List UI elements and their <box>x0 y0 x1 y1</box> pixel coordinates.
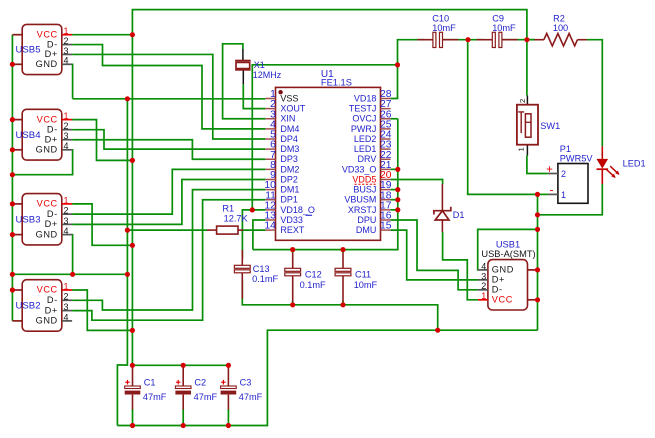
wire USB4 GND loop to shield rail <box>12 150 72 175</box>
junction right rail / USB1 GND <box>535 227 540 232</box>
capacitor C9 10mF <box>477 13 518 47</box>
wire VD18 to C10 <box>398 40 425 65</box>
wire +5V rail to C1 top / cap bank top rail <box>132 364 228 366</box>
pin 6 DM3 <box>265 140 299 154</box>
svg-text:GND: GND <box>36 316 58 326</box>
svg-text:2: 2 <box>64 36 69 46</box>
svg-text:BUSJ: BUSJ <box>353 185 376 195</box>
junction VD33 rail / C12 <box>290 247 295 252</box>
svg-text:USB-A(SMT): USB-A(SMT) <box>481 249 535 259</box>
svg-text:DP4: DP4 <box>280 134 298 144</box>
wire SW1 to P1 plus <box>527 156 548 174</box>
wire C3 bottom <box>227 409 229 426</box>
svg-text:USB2: USB2 <box>15 301 40 312</box>
svg-text:2: 2 <box>518 99 527 103</box>
junction USB3 shield upper <box>10 201 15 206</box>
junction VD33 rail / C11 <box>340 247 345 252</box>
svg-text:P1: P1 <box>560 144 571 154</box>
wire C2 bottom <box>182 409 184 426</box>
wire XIN loop (pin3 to crystal top) <box>223 44 266 119</box>
svg-text:DM1: DM1 <box>280 185 299 195</box>
pin 5 DP4 <box>265 130 298 144</box>
svg-text:4: 4 <box>64 226 69 236</box>
svg-text:10mF: 10mF <box>354 280 378 290</box>
svg-text:D+: D+ <box>492 275 505 285</box>
wire D1 anode to USB1 VCC <box>443 232 478 300</box>
wire USB2 D+ to chip DP1 (pin11) <box>72 200 265 320</box>
svg-text:D1: D1 <box>453 210 465 220</box>
crystal X1 12MHz <box>235 49 282 84</box>
wire left shield rail (USB5..USB2 shells) <box>11 35 13 321</box>
pin 4 DM4 <box>265 119 299 133</box>
svg-text:D+: D+ <box>45 134 58 144</box>
svg-text:2: 2 <box>64 121 69 131</box>
wire right GND rail <box>537 194 539 330</box>
pin 17 XRSTJ <box>348 200 392 214</box>
wire VD18 pin28 link <box>391 65 398 99</box>
pin 24 LED2 <box>354 130 392 144</box>
junction strap pin18 <box>395 197 400 202</box>
junction C10/C9 <box>465 37 470 42</box>
wire USB2 D- to chip DM1 (pin10) <box>72 190 265 310</box>
pin 15 DMU <box>356 221 392 235</box>
svg-text:12.7K: 12.7K <box>224 214 249 224</box>
wire DPU pin16 to USB1 D- <box>391 220 478 290</box>
wire USB3 GND loop <box>71 235 74 275</box>
wire C12 bottom <box>292 301 294 305</box>
USB4 shield pin stub top-left <box>12 119 22 121</box>
svg-text:C11: C11 <box>355 270 371 280</box>
wire DMU pin15 to USB1 D+ <box>391 230 478 280</box>
svg-text:DM3: DM3 <box>280 144 299 154</box>
resistor R2 100 <box>527 13 587 46</box>
wire USB4 D- to chip DM3 (pin6) <box>72 130 265 149</box>
svg-text:D-: D- <box>47 209 58 219</box>
switch SW1 <box>517 96 561 156</box>
svg-text:12MHz: 12MHz <box>253 70 282 80</box>
wire VD33_O pin21 stub link <box>391 168 398 170</box>
wire USB1 GND to right rail <box>478 229 538 270</box>
svg-text:USB4: USB4 <box>15 130 41 141</box>
junction VCC rail / USB3 <box>130 243 135 248</box>
wire P1 pin1 stub link <box>538 193 548 195</box>
wire BUSJ pin19 stub link <box>391 189 398 191</box>
wire switch node down to SW1 <box>526 40 528 96</box>
svg-text:1: 1 <box>64 195 69 205</box>
svg-text:SW1: SW1 <box>540 121 560 131</box>
svg-text:XIN: XIN <box>280 114 295 124</box>
svg-text:D-: D- <box>47 39 58 49</box>
svg-text:C13: C13 <box>253 264 270 274</box>
svg-text:C3: C3 <box>240 378 252 388</box>
capacitor C2 47mF (electrolytic) <box>175 365 217 409</box>
svg-text:C10: C10 <box>432 13 449 23</box>
wire VD33 rail to C12 C11 and jumper strap <box>253 169 398 249</box>
svg-text:LED1: LED1 <box>623 159 646 169</box>
svg-text:VBUSM: VBUSM <box>344 195 376 205</box>
svg-text:USB3: USB3 <box>15 214 40 225</box>
junction VCC rail / USB2 <box>130 328 135 333</box>
svg-text:USB5: USB5 <box>15 45 40 56</box>
svg-text:REXT: REXT <box>280 225 305 235</box>
wire USB4 VCC to rail <box>72 120 132 161</box>
pin 22 DRV <box>358 150 392 164</box>
wire USB3 D- to chip DM2 (pin8) <box>72 169 265 214</box>
svg-text:-: - <box>550 183 554 197</box>
wire USB3 VCC to rail <box>72 204 132 245</box>
wire top +5V rail <box>132 10 527 40</box>
svg-text:LED2: LED2 <box>354 134 377 144</box>
wire R2 to LED1 <box>587 40 602 147</box>
svg-text:14: 14 <box>264 221 276 232</box>
svg-text:GND: GND <box>492 265 514 275</box>
svg-text:100: 100 <box>553 23 568 33</box>
wire VDD5 pin20 to D1 <box>391 179 443 184</box>
wire C10 right to C9 left <box>441 39 483 41</box>
svg-text:GND: GND <box>36 229 58 239</box>
pin 23 LED1 <box>354 140 392 154</box>
wire VD18_O pin12 to C13 and VD18 <box>242 210 265 259</box>
USB2 shield pin stub bottom-left <box>12 320 22 322</box>
capacitor C3 47mF (electrolytic) <box>221 365 263 409</box>
svg-text:VCC: VCC <box>37 199 58 209</box>
connector USB5 (USB downstream port) <box>15 24 72 74</box>
svg-text:C12: C12 <box>305 270 322 280</box>
junction cap bank C2 top <box>181 363 186 368</box>
junction USB4 shield upper <box>10 117 15 122</box>
svg-text:GND: GND <box>36 59 58 69</box>
pin 19 BUSJ <box>353 180 391 194</box>
svg-text:OVCJ: OVCJ <box>352 114 376 124</box>
USB2 shield pin stub top-left <box>12 289 22 291</box>
junction USB3 GND loop left <box>10 272 15 277</box>
svg-text:USB1: USB1 <box>496 239 520 249</box>
svg-text:3: 3 <box>64 302 69 312</box>
pin 2 XOUT <box>265 99 306 113</box>
wire XRSTJ pin17 stub link <box>391 209 398 211</box>
svg-text:DPU: DPU <box>357 215 376 225</box>
USB1 shield stub top-right <box>528 269 538 271</box>
capacitor C12 0.1mF <box>285 253 326 302</box>
svg-text:DM2: DM2 <box>280 164 299 174</box>
pin 3 XIN <box>265 109 295 123</box>
junction strap pin21 <box>395 167 400 172</box>
connector USB4 (USB downstream port) <box>15 109 72 160</box>
wire USB5 GND down to VSS/GND line <box>71 64 74 99</box>
wire USB2 VCC to rail <box>72 290 132 330</box>
svg-text:XRSTJ: XRSTJ <box>348 205 377 215</box>
wire USB3 D+ to chip DP2 (pin9) <box>72 179 265 224</box>
connector USB1 USB-A(SMT) <box>478 239 538 310</box>
svg-text:1: 1 <box>517 147 526 151</box>
capacitor C1 47mF (electrolytic) <box>125 365 167 409</box>
svg-text:1: 1 <box>481 291 486 301</box>
svg-text:VDD5: VDD5 <box>352 174 376 184</box>
svg-text:VCC: VCC <box>37 29 58 39</box>
pin 7 DP3 <box>265 150 298 164</box>
junction VD18_O pin12 <box>250 207 255 212</box>
svg-text:DM4: DM4 <box>280 124 299 134</box>
junction cap bank C3 bottom <box>226 423 231 428</box>
wire USB5 D- to chip DM4 (pin4) <box>72 45 265 129</box>
svg-text:VD18_O: VD18_O <box>280 205 315 215</box>
junction USB4 shield lower <box>10 147 15 152</box>
USB3 shield pin stub bottom-left <box>12 234 22 236</box>
USB1 shield stub bottom-right <box>528 299 538 301</box>
svg-text:1: 1 <box>64 26 69 36</box>
USB4 shield pin stub bottom-left <box>12 149 22 151</box>
svg-text:D-: D- <box>492 285 503 295</box>
capacitor C13 0.1mF <box>234 250 278 299</box>
svg-text:+: + <box>546 164 553 176</box>
svg-text:VSS: VSS <box>280 93 298 103</box>
pin 8 DM2 <box>265 160 299 174</box>
wire C9 right to switch/R2 node <box>501 39 535 41</box>
pin 25 PWRJ <box>351 119 392 133</box>
junction cap bank C1 bottom <box>130 423 135 428</box>
LED LED1 <box>597 146 646 184</box>
junction strap pin17 <box>395 207 400 212</box>
svg-text:VCC: VCC <box>37 285 58 295</box>
svg-text:D-: D- <box>47 295 58 305</box>
svg-text:4: 4 <box>64 312 69 322</box>
junction GND rail / VSS line <box>125 96 130 101</box>
svg-text:D+: D+ <box>45 219 58 229</box>
wire USB4 D+ to chip DP3 (pin7) <box>72 140 265 160</box>
wire VCC vertical rail <box>131 35 133 366</box>
svg-text:2: 2 <box>64 206 69 216</box>
USB5 shield pin stub bottom-left <box>12 63 22 65</box>
junction cap bank C3 top <box>226 363 231 368</box>
wire GND feed C10/C9 junction down to P1 minus <box>468 40 538 195</box>
junction right rail / USB1 shield bottom <box>535 297 540 302</box>
svg-text:XOUT: XOUT <box>280 104 306 114</box>
wire LED bottom return to right rail <box>538 184 603 215</box>
pin 26 OVCJ <box>352 109 391 123</box>
svg-text:LED1: LED1 <box>354 144 377 154</box>
junction strap pin19 <box>395 187 400 192</box>
wire bottom GND bus <box>117 330 537 425</box>
svg-text:C9: C9 <box>492 13 504 23</box>
pin 11 DP1 <box>265 190 298 204</box>
wire GND line to chip VSS (pin1) <box>73 98 266 100</box>
junction right rail / LED return <box>535 212 540 217</box>
wire R1 to REXT pin14 <box>243 229 265 231</box>
pin 21 VD33_O <box>342 160 392 174</box>
pin 16 DPU <box>357 211 391 225</box>
diode D1 <box>434 184 465 232</box>
wire OVCJ pin26 stub link <box>391 118 398 120</box>
svg-text:PWRJ: PWRJ <box>351 124 377 134</box>
svg-text:1: 1 <box>64 111 69 121</box>
svg-text:D+: D+ <box>45 305 58 315</box>
junction GND rail / USB3 GND <box>125 272 130 277</box>
junction bottom bus / C-rail drop <box>435 328 440 333</box>
junction right rail / P1 minus <box>535 192 540 197</box>
svg-text:10mF: 10mF <box>432 23 456 33</box>
junction GND rail / C12 <box>290 302 295 307</box>
junction USB5 shield lower <box>10 62 15 67</box>
wire XOUT (pin2 to crystal bottom) <box>243 84 265 108</box>
pin 18 VBUSM <box>344 190 391 204</box>
svg-text:DMU: DMU <box>356 225 377 235</box>
junction USB3 GND loop mid <box>70 272 75 277</box>
pin 13 VD33 <box>264 211 312 225</box>
svg-text:C2: C2 <box>194 378 206 388</box>
capacitor C10 10mF <box>417 13 458 47</box>
svg-text:4: 4 <box>481 261 486 271</box>
svg-text:DP2: DP2 <box>280 174 298 184</box>
junction USB4 GND loop <box>10 172 15 177</box>
svg-text:0.1mF: 0.1mF <box>252 274 278 284</box>
svg-text:VCC: VCC <box>492 295 513 305</box>
connector USB2 (USB downstream port) <box>15 280 72 332</box>
svg-text:X1: X1 <box>254 60 265 70</box>
svg-text:VCC: VCC <box>37 114 58 124</box>
wire GND vertical rail <box>117 99 127 426</box>
svg-text:2: 2 <box>561 169 566 179</box>
pin 10 DM1 <box>264 180 299 194</box>
USB3 shield pin stub top-left <box>12 203 22 205</box>
wire C11 top to VD33 rail <box>342 250 344 253</box>
pin 28 VD18 <box>354 89 392 103</box>
svg-text:D+: D+ <box>45 49 58 59</box>
svg-text:VD18: VD18 <box>354 93 377 103</box>
svg-text:PWR5V: PWR5V <box>560 154 594 164</box>
pin 27 TESTJ <box>349 99 392 113</box>
junction VCC rail / USB4 <box>130 158 135 163</box>
pin 20 VDD5 <box>352 170 391 184</box>
junction VD18 node <box>395 62 400 67</box>
svg-text:GND: GND <box>36 145 58 155</box>
wire C13 C12 C11 GND rail <box>242 280 437 330</box>
pin 14 REXT <box>264 221 304 235</box>
junction VCC rail / C1 top <box>130 363 135 368</box>
svg-text:0.1mF: 0.1mF <box>300 280 326 290</box>
wire USB5 D+ to chip DP4 (pin5) <box>72 54 265 139</box>
junction USB3 shield lower <box>10 232 15 237</box>
svg-text:VD33_O: VD33_O <box>342 164 377 174</box>
svg-text:47mF: 47mF <box>143 392 167 402</box>
wire VD18_O riser <box>252 65 397 210</box>
svg-text:DRV: DRV <box>358 154 377 164</box>
svg-text:2: 2 <box>481 281 486 291</box>
svg-text:15: 15 <box>380 221 392 232</box>
junction C9/R2/SW1/top rail <box>524 37 529 42</box>
svg-text:47mF: 47mF <box>239 392 263 402</box>
junction GND rail / R1 line <box>125 228 130 233</box>
USB5 shield pin stub top-left <box>12 34 22 36</box>
svg-text:VD33: VD33 <box>280 215 303 225</box>
svg-text:TESTJ: TESTJ <box>349 104 377 114</box>
wire GND cross-link left rail to GND rail <box>12 273 127 275</box>
svg-text:3: 3 <box>64 216 69 226</box>
svg-text:47mF: 47mF <box>194 392 218 402</box>
svg-text:FE1.1S: FE1.1S <box>321 78 352 88</box>
svg-text:2: 2 <box>64 292 69 302</box>
wire VBUSM pin18 stub link <box>391 199 398 201</box>
wire C12 top to VD33 rail <box>292 250 294 253</box>
svg-text:4: 4 <box>64 141 69 151</box>
pin 9 DP2 <box>265 170 298 184</box>
IC U1 FE1.1S <box>264 69 391 240</box>
wire C1 bottom <box>132 409 134 426</box>
wire jumper strap pins 26-21 <box>397 119 399 170</box>
resistor R1 12.7K <box>207 203 248 234</box>
connector P1 PWR5V <box>546 144 593 203</box>
junction USB2 shield upper <box>10 287 15 292</box>
connector USB3 (USB downstream port) <box>15 194 72 245</box>
svg-text:1: 1 <box>561 190 566 200</box>
svg-text:C1: C1 <box>144 378 156 388</box>
pin 1 VSS <box>265 89 298 103</box>
junction cap bank C2 bottom <box>181 423 186 428</box>
svg-text:10mF: 10mF <box>492 23 516 33</box>
svg-text:1: 1 <box>64 281 69 291</box>
svg-text:R2: R2 <box>553 13 565 23</box>
wire USB5 VCC to rail <box>72 34 132 36</box>
capacitor C11 10mF <box>335 253 377 302</box>
svg-text:D-: D- <box>47 124 58 134</box>
svg-text:DP3: DP3 <box>280 154 298 164</box>
svg-text:DP1: DP1 <box>280 195 298 205</box>
junction GND rail / C11 <box>340 302 345 307</box>
pin 12 VD18_O <box>264 200 315 214</box>
svg-text:4: 4 <box>64 56 69 66</box>
wire VD33 pin13 elbow down <box>253 220 266 250</box>
svg-text:R1: R1 <box>222 203 234 213</box>
wire R1 GND side <box>127 229 207 231</box>
svg-text:3: 3 <box>481 271 486 281</box>
svg-text:3: 3 <box>64 131 69 141</box>
svg-text:3: 3 <box>64 46 69 56</box>
wire C11 bottom <box>342 301 344 305</box>
junction USB5 VCC / top rail <box>130 32 135 37</box>
junction right rail / USB1 shield top <box>535 267 540 272</box>
